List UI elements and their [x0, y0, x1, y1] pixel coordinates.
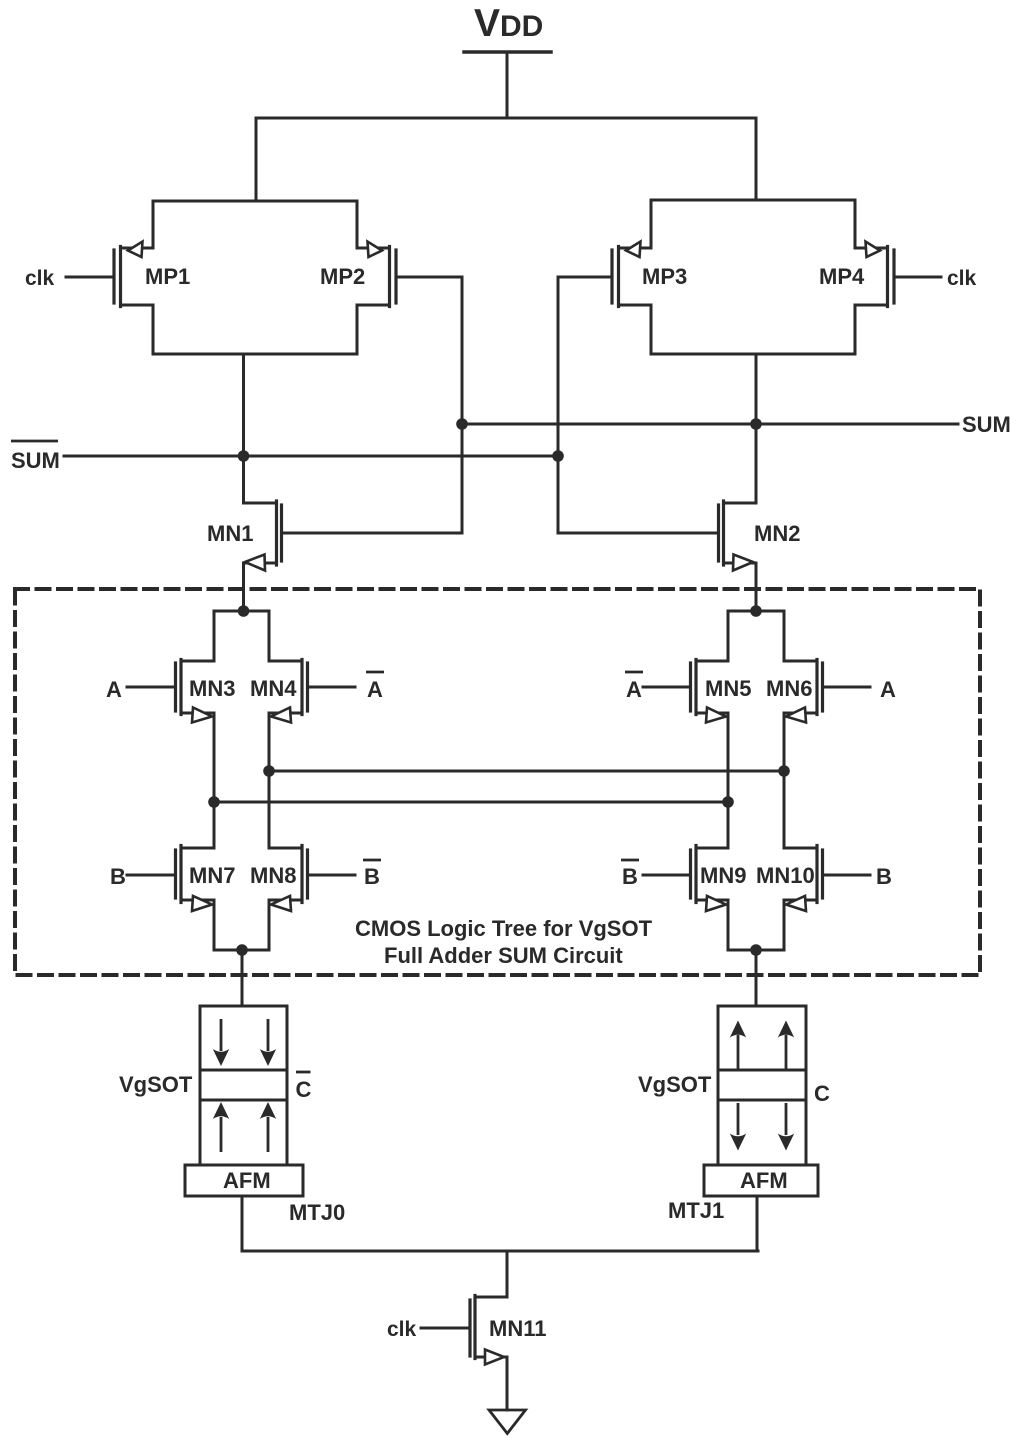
- svg-text:B: B: [622, 864, 638, 889]
- svg-text:A: A: [367, 677, 383, 702]
- svg-text:SUM: SUM: [962, 412, 1011, 437]
- svg-text:MP2: MP2: [320, 264, 365, 289]
- svg-text:clk: clk: [25, 267, 55, 290]
- svg-text:B: B: [876, 864, 892, 889]
- svg-text:MN7: MN7: [189, 863, 235, 888]
- svg-text:A: A: [626, 677, 642, 702]
- svg-text:MN10: MN10: [756, 863, 815, 888]
- svg-text:B: B: [110, 864, 126, 889]
- svg-text:VDD: VDD: [474, 2, 543, 45]
- svg-text:clk: clk: [947, 267, 977, 290]
- svg-text:clk: clk: [387, 1318, 417, 1341]
- svg-text:MN1: MN1: [207, 521, 253, 546]
- svg-text:MN2: MN2: [754, 521, 800, 546]
- svg-text:A: A: [106, 677, 122, 702]
- svg-text:MN3: MN3: [189, 676, 235, 701]
- svg-text:MN4: MN4: [250, 676, 297, 701]
- svg-text:A: A: [880, 677, 896, 702]
- svg-text:AFM: AFM: [223, 1168, 271, 1193]
- svg-text:SUM: SUM: [11, 448, 60, 473]
- svg-text:C: C: [296, 1077, 312, 1102]
- svg-text:MN5: MN5: [705, 676, 751, 701]
- svg-text:Full Adder SUM Circuit: Full Adder SUM Circuit: [384, 943, 623, 968]
- svg-text:MN6: MN6: [766, 676, 812, 701]
- svg-text:B: B: [364, 864, 380, 889]
- svg-text:AFM: AFM: [740, 1168, 788, 1193]
- svg-text:MN8: MN8: [250, 863, 296, 888]
- svg-text:VgSOT: VgSOT: [119, 1072, 193, 1097]
- svg-text:CMOS Logic Tree for VgSOT: CMOS Logic Tree for VgSOT: [355, 916, 653, 941]
- svg-text:MP1: MP1: [145, 264, 190, 289]
- svg-text:MTJ0: MTJ0: [289, 1200, 345, 1225]
- svg-text:MP4: MP4: [819, 264, 865, 289]
- svg-text:MTJ1: MTJ1: [668, 1198, 724, 1223]
- svg-text:MN11: MN11: [489, 1316, 546, 1341]
- svg-text:MN9: MN9: [700, 863, 746, 888]
- svg-text:VgSOT: VgSOT: [638, 1072, 712, 1097]
- svg-text:C: C: [814, 1081, 830, 1106]
- svg-text:MP3: MP3: [642, 264, 687, 289]
